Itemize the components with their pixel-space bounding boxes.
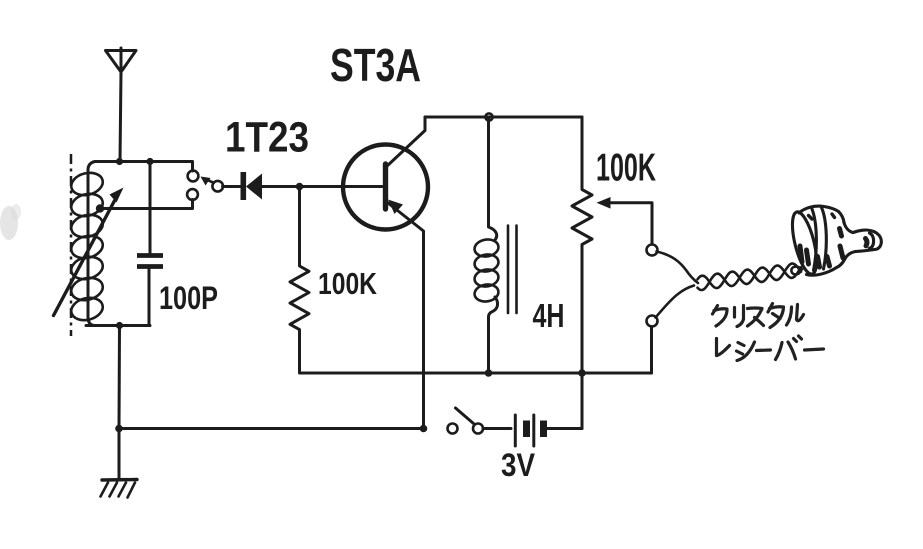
svg-text:100K: 100K: [318, 267, 377, 301]
svg-text:ST3A: ST3A: [330, 39, 421, 91]
svg-text:4H: 4H: [533, 297, 565, 334]
svg-text:3V: 3V: [501, 447, 536, 483]
svg-text:100P: 100P: [159, 280, 218, 316]
svg-text:1T23: 1T23: [225, 114, 309, 162]
svg-text:100K: 100K: [596, 147, 656, 190]
